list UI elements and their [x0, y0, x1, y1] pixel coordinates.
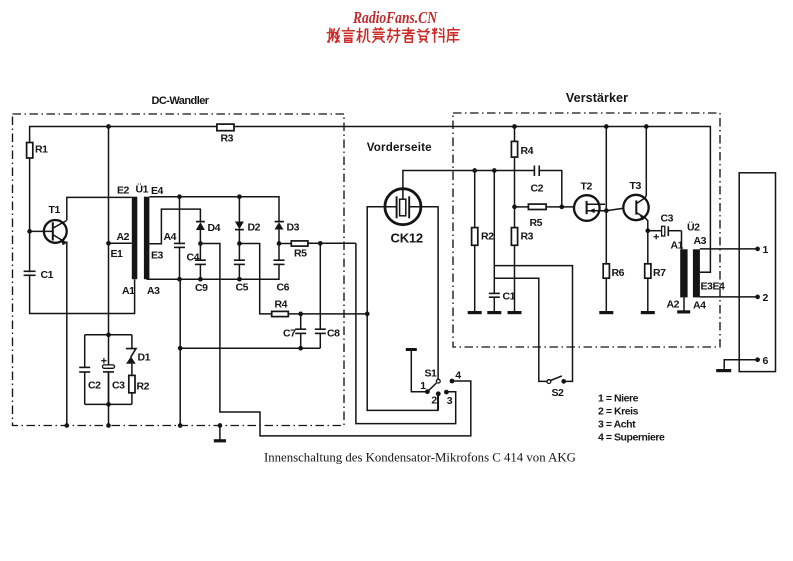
HEADER: [327, 8, 459, 42]
wire R2 to bottom rail: [131, 393, 133, 405]
svg-text:Ü1: Ü1: [136, 183, 149, 196]
svg-text:2: 2: [763, 292, 769, 304]
svg-text:Ü2: Ü2: [687, 221, 700, 234]
resistor R2 (DC): [129, 375, 135, 392]
svg-text:2 = Kreis: 2 = Kreis: [598, 406, 639, 418]
diode D3: [275, 222, 284, 244]
capacitor C8: [315, 243, 326, 348]
node D2 top: [237, 194, 242, 199]
svg-text:R6: R6: [612, 267, 625, 279]
node R5 out: [318, 241, 323, 246]
node T2 rail: [604, 124, 609, 129]
switch S1 contact 4: [450, 379, 455, 384]
wire input to C1: [493, 171, 495, 294]
wire top supply rail: [30, 127, 711, 273]
wire capsule left plate to S1 contact2: [367, 207, 438, 411]
svg-text:C3: C3: [661, 213, 674, 225]
capsule diaphragm: [400, 199, 406, 216]
svg-text:E1: E1: [111, 248, 124, 260]
svg-text:D3: D3: [287, 222, 300, 234]
node D4 out: [198, 241, 203, 246]
svg-text:A3: A3: [147, 285, 160, 297]
node C4 bottom rail: [177, 277, 182, 282]
wire C7 C8 common return: [180, 347, 320, 349]
transformer U2 primary winding: [680, 249, 687, 297]
resistor R6: [603, 264, 609, 278]
svg-text:D2: D2: [248, 222, 261, 234]
svg-text:C4: C4: [187, 252, 200, 264]
capacitor C1 (amp): [489, 293, 500, 297]
wire ground to contact 1: [411, 350, 427, 392]
wire T2 emitter to T3 base: [606, 208, 623, 211]
switch S1 contact 2: [436, 391, 441, 396]
node return left: [178, 346, 183, 351]
DCLEFT: [24, 124, 711, 428]
svg-text:E3: E3: [151, 250, 164, 262]
plus sign C3: [101, 358, 106, 363]
svg-text:R4: R4: [275, 299, 288, 311]
switch S2 lever: [551, 376, 562, 381]
ground symbol (DC enclosure): [214, 426, 226, 441]
resistor R3 (amp): [511, 228, 517, 246]
svg-text:A2: A2: [117, 231, 130, 243]
transformer U1 primary winding: [132, 197, 138, 280]
wire A4 to terminal 2: [700, 296, 758, 298]
svg-text:Vorderseite: Vorderseite: [367, 141, 432, 154]
wire R5 node to S1 contact3 run: [356, 243, 456, 423]
svg-text:2: 2: [431, 395, 437, 407]
node T2 emitter: [604, 208, 609, 213]
svg-text:E3E4: E3E4: [701, 281, 725, 293]
plus sign C3 amp: [654, 234, 659, 239]
svg-text:R7: R7: [653, 267, 666, 279]
svg-text:CK12: CK12: [391, 231, 423, 246]
svg-text:A2: A2: [667, 299, 680, 311]
wire rail vertical A2 feed: [108, 127, 110, 426]
resistor R5 (DC): [279, 241, 356, 246]
wire to S2 pole: [494, 278, 547, 381]
svg-text:A4: A4: [164, 231, 177, 243]
transformer U1 secondary winding: [144, 197, 150, 280]
svg-text:R2: R2: [481, 231, 494, 243]
svg-text:R3: R3: [221, 133, 234, 145]
node input S2 branch: [492, 168, 497, 173]
DCSUB: [79, 332, 226, 440]
svg-text:RadioFans.CN: RadioFans.CN: [352, 8, 438, 27]
wire T2 vertical to R6: [605, 127, 607, 264]
svg-text:1: 1: [763, 244, 769, 256]
capacitor C6: [274, 244, 285, 265]
node A2 tap: [106, 241, 111, 246]
svg-text:3 = Acht: 3 = Acht: [598, 419, 636, 431]
svg-text:Verstärker: Verstärker: [566, 91, 628, 105]
resistor R2 (amp): [472, 171, 478, 312]
svg-text:E2: E2: [117, 185, 130, 197]
svg-text:S1: S1: [425, 368, 438, 380]
node D3 out: [277, 241, 282, 246]
svg-text:C3: C3: [112, 380, 125, 392]
wire E3 tap staircase to D4: [149, 209, 200, 244]
wire capsule right plate to S1 pole: [409, 207, 438, 380]
ground terminal 6: [716, 369, 731, 372]
node T3 collector rail: [644, 124, 649, 129]
wire T3 emitter down: [645, 218, 648, 231]
wire D4 junction to S1 contact4 run: [200, 244, 470, 436]
S1SEC: [406, 350, 455, 411]
wire A2 tap to winding: [109, 242, 132, 244]
terminal 2: [755, 295, 760, 300]
capacitor C7: [295, 314, 306, 348]
wire bias network top rail: [85, 334, 132, 336]
node polarization feed: [365, 312, 370, 317]
svg-text:T3: T3: [630, 180, 642, 192]
node C5 bottom: [237, 277, 242, 282]
ground C1: [487, 297, 501, 312]
svg-text:C7: C7: [283, 328, 296, 340]
wire terminal 6 to ground: [724, 360, 757, 370]
svg-text:R4: R4: [521, 145, 534, 157]
svg-text:6: 6: [763, 355, 769, 367]
svg-text:A4: A4: [693, 300, 706, 312]
svg-text:C6: C6: [277, 282, 290, 294]
CKSEC: [365, 171, 534, 411]
svg-text:R1: R1: [35, 144, 48, 156]
capacitor C5: [234, 244, 245, 280]
node on bottom rail: [106, 423, 111, 428]
svg-text:D1: D1: [138, 352, 151, 364]
svg-text:R2: R2: [137, 381, 150, 393]
svg-text:DC-Wandler: DC-Wandler: [151, 95, 209, 107]
svg-text:T2: T2: [581, 181, 593, 193]
svg-text:4 = Superniere: 4 = Superniere: [598, 432, 665, 444]
svg-text:1: 1: [420, 380, 426, 392]
wire R4 out to capsule feed: [288, 313, 367, 315]
diode D2: [235, 197, 244, 244]
node rail R4: [512, 124, 517, 129]
ground R3: [508, 311, 522, 314]
wire to S2 right contact: [494, 266, 572, 382]
wire contact2 stub: [437, 394, 439, 411]
BOXES: [13, 113, 721, 426]
node input R2: [472, 168, 477, 173]
DCMID: [147, 194, 471, 436]
svg-text:C5: C5: [236, 282, 249, 294]
svg-text:S2: S2: [552, 387, 565, 399]
resistor R3 (DC): [217, 124, 234, 131]
chinese subtitle 收音机爱好者资料库: [327, 28, 459, 43]
svg-text:C8: C8: [327, 328, 340, 340]
wire T3 collector up: [645, 127, 648, 198]
switch S1 contact 1: [425, 389, 430, 394]
capacitor C3 (DC) electrolytic: [103, 365, 115, 405]
AMPSEC: [468, 124, 682, 384]
transistor T3: [623, 195, 648, 221]
svg-text:C9: C9: [195, 282, 208, 294]
capacitor C9: [195, 244, 206, 280]
switch S1 lever: [427, 383, 436, 392]
ground R7: [641, 278, 655, 312]
node enclosure: [178, 423, 183, 428]
resistor R5 (amp): [515, 204, 575, 209]
svg-text:A1: A1: [671, 240, 684, 252]
resistor R7: [645, 231, 651, 278]
svg-text:C1: C1: [41, 269, 54, 281]
switch S1 pole circle: [436, 379, 440, 383]
resistor R4 (amp): [511, 141, 517, 157]
capacitor C2 (DC): [79, 335, 90, 405]
svg-text:R3: R3: [521, 231, 534, 243]
capacitor C4: [174, 243, 185, 247]
zener diode D1: [126, 335, 136, 376]
node R4 out: [298, 312, 303, 317]
capsule backplate right: [408, 196, 410, 218]
svg-text:A1: A1: [122, 285, 135, 297]
svg-text:3: 3: [447, 395, 453, 407]
wire A3 rail down to enclosure: [179, 279, 181, 425]
svg-text:E4: E4: [151, 185, 164, 197]
wire bias network bottom rail: [85, 403, 132, 405]
svg-text:4: 4: [455, 369, 461, 381]
wire A2 to ground: [677, 297, 690, 312]
node T3 emitter: [645, 228, 650, 233]
node C9 bottom: [198, 277, 203, 282]
node ground junction: [218, 423, 223, 428]
capsule CK12 body: [385, 189, 421, 225]
ground R6: [599, 278, 613, 312]
wire base into T1: [30, 230, 53, 232]
Verstaerker dashed enclosure: [453, 113, 720, 347]
node emitter on enclosure rail: [64, 423, 69, 428]
svg-text:R5: R5: [530, 217, 543, 229]
wire A3 bottom rail: [147, 264, 280, 279]
svg-text:1 = Niere: 1 = Niere: [598, 393, 639, 405]
node C4 top: [177, 194, 182, 199]
wire A3 to terminal 1: [700, 248, 758, 250]
svg-text:D4: D4: [208, 222, 221, 234]
node C7 bottom: [298, 346, 303, 351]
capacitor C3 (amp) electrolytic: [648, 226, 682, 236]
switch S2 pole circle: [547, 380, 551, 384]
node R5 C2 join: [559, 205, 564, 210]
capacitor C2 (amp): [534, 166, 561, 207]
ground bar S1 common: [406, 348, 417, 351]
capacitor C1 (DC): [24, 271, 36, 275]
switch S1 contact 3: [444, 390, 449, 395]
OUTSEC: [677, 173, 775, 372]
DC-Wandler dashed enclosure: [13, 114, 345, 426]
switch S2 contact: [561, 379, 566, 384]
wire capsule top to amplifier input: [403, 171, 534, 200]
terminal 6: [755, 357, 760, 362]
wire E4 top rail: [149, 197, 279, 221]
wire D2 junction to R4: [239, 244, 271, 314]
svg-text:C2: C2: [531, 183, 544, 195]
resistor R1: [27, 143, 33, 159]
svg-text:R5: R5: [294, 248, 307, 260]
node R5 left: [512, 205, 517, 210]
transistor T1: [44, 220, 67, 243]
wire R4 R3 branch: [514, 127, 516, 312]
wire T1 collector to E2: [67, 197, 132, 220]
wire C3 to U2 primary top A1: [681, 231, 683, 250]
wire T1 emitter down to ground rail: [66, 242, 68, 426]
node D2 out: [237, 241, 242, 246]
wire R1 to T1 base and C1: [30, 158, 135, 314]
connector shell: [739, 173, 775, 372]
wire E3E4 tap to rail: [700, 271, 711, 273]
node bottom rail: [106, 402, 111, 407]
diode D4: [196, 222, 205, 244]
transistor T2: [574, 195, 605, 221]
capsule backplate left: [396, 196, 398, 218]
ground R2: [468, 311, 482, 314]
node top rail: [106, 332, 111, 337]
svg-text:C2: C2: [88, 380, 101, 392]
svg-text:Innenschaltung des Kondensator: Innenschaltung des Kondensator-Mikrofons…: [264, 451, 576, 465]
node T1 base: [27, 229, 32, 234]
svg-text:T1: T1: [49, 204, 61, 216]
transformer U2 secondary winding: [693, 249, 700, 297]
svg-text:A3: A3: [694, 235, 707, 247]
wire C4 branch: [179, 197, 181, 280]
node rail top: [106, 124, 111, 129]
resistor R4 (DC): [272, 311, 289, 316]
terminal 1: [755, 247, 760, 252]
svg-text:C1: C1: [503, 291, 516, 303]
